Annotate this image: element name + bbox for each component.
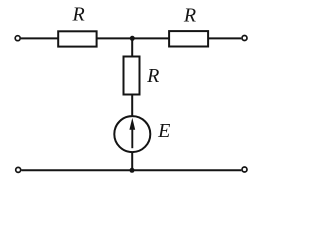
terminal bottom-left [16, 167, 21, 172]
wire R3 to source [131, 95, 133, 117]
wire source to bottom [131, 152, 133, 170]
wire top-left [21, 37, 59, 39]
terminal top-right [242, 36, 247, 41]
resistor R3 [124, 57, 140, 95]
resistor R2 [169, 31, 208, 46]
svg-text:R: R [183, 5, 196, 27]
node top junction [130, 36, 135, 41]
wire top-middle [97, 37, 170, 39]
terminal top-left [15, 36, 20, 41]
wire junction to R3 [131, 38, 133, 57]
svg-text:E: E [157, 120, 170, 142]
node bottom junction [130, 168, 135, 173]
wire top-right [208, 37, 241, 39]
source E arrow [129, 118, 135, 148]
wire bottom [22, 169, 242, 171]
svg-text:R: R [71, 4, 84, 26]
resistor R1 [58, 31, 96, 46]
terminal bottom-right [242, 167, 247, 172]
source E circle [114, 116, 150, 152]
svg-text:R: R [146, 65, 159, 87]
